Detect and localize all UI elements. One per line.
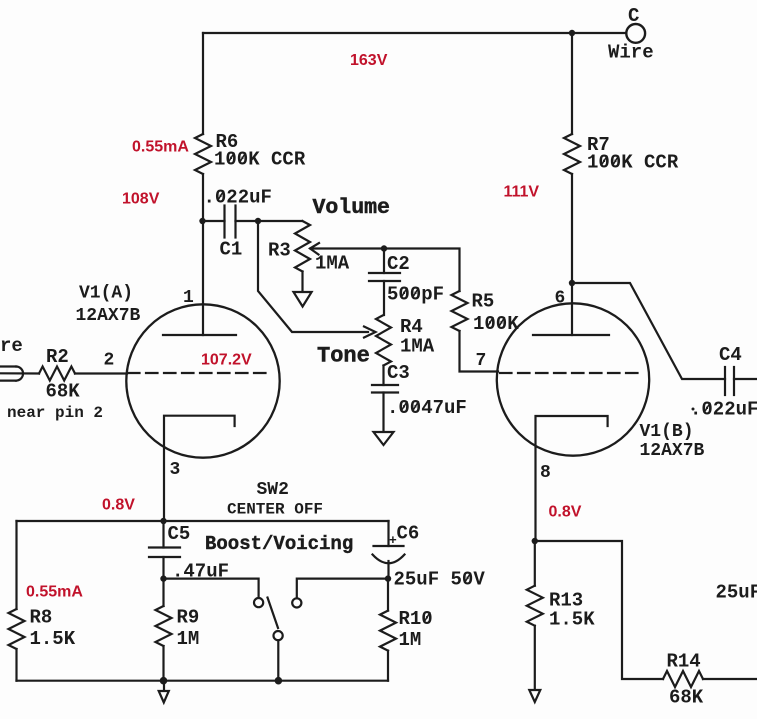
speck xyxy=(692,408,695,411)
svg-text:1: 1 xyxy=(183,288,194,308)
tube V1(B) grid dashed xyxy=(500,372,641,374)
wire R7 bottom lead xyxy=(571,174,573,283)
ground arrow bottom xyxy=(159,681,169,703)
svg-text:R2: R2 xyxy=(46,346,69,368)
svg-text:R8: R8 xyxy=(30,607,53,629)
svg-text:.022uF: .022uF xyxy=(690,399,757,421)
tube V1(B) plate lead pin 6 xyxy=(571,283,573,335)
tube V1(A) circle xyxy=(126,304,279,457)
svg-text:1MA: 1MA xyxy=(400,336,435,358)
resistor R13 xyxy=(527,541,595,690)
svg-text:R9: R9 xyxy=(177,607,200,629)
resistor R5 xyxy=(452,291,520,336)
capacitor C6 xyxy=(373,521,486,591)
svg-text:R10: R10 xyxy=(399,608,433,630)
wire R5 to pin 7 xyxy=(460,331,499,372)
switch SW2 xyxy=(164,579,389,681)
resistor R8 xyxy=(9,521,76,681)
svg-text:Boost/Voicing: Boost/Voicing xyxy=(205,533,353,555)
slashed zeros xyxy=(218,153,710,622)
svg-text:+: + xyxy=(389,533,397,548)
svg-text:7: 7 xyxy=(476,351,487,371)
wire R2 to pin 2 xyxy=(75,372,127,374)
ground below C3 xyxy=(374,432,394,445)
svg-text:C1: C1 xyxy=(220,239,243,261)
wire R7 top lead xyxy=(571,33,573,134)
wire R3 wiper to node xyxy=(311,247,385,249)
svg-text:12AX7B: 12AX7B xyxy=(640,441,705,461)
svg-text:.022uF: .022uF xyxy=(204,187,272,209)
svg-text:500pF: 500pF xyxy=(387,284,444,306)
svg-text:8: 8 xyxy=(540,463,551,483)
svg-text:1M: 1M xyxy=(399,629,422,651)
resistor R14 xyxy=(663,651,757,709)
junction dot bottom switch xyxy=(275,677,283,685)
capacitor C1 xyxy=(203,187,272,261)
svg-text:1.5K: 1.5K xyxy=(549,609,595,631)
tube V1(A) grid dashed xyxy=(128,372,272,374)
capacitor C5 xyxy=(149,521,229,583)
svg-text:re: re xyxy=(0,335,23,357)
wire bottom bus xyxy=(17,680,389,682)
node C terminal xyxy=(626,24,645,43)
svg-text:108V: 108V xyxy=(122,191,160,208)
wire C1 to tone wiper xyxy=(258,221,368,332)
svg-text:100K CCR: 100K CCR xyxy=(587,152,679,174)
wire cathode bus xyxy=(17,520,389,522)
junction dot node 6 xyxy=(569,280,575,286)
ground arrow below R13 xyxy=(529,690,540,702)
svg-text:68K: 68K xyxy=(46,381,81,403)
svg-text:C5: C5 xyxy=(168,523,191,545)
junction dot below C6 xyxy=(385,575,391,581)
svg-text:1M: 1M xyxy=(177,628,200,650)
svg-text:3: 3 xyxy=(170,460,181,480)
ground below R3 xyxy=(294,292,312,307)
svg-text:6: 6 xyxy=(555,289,566,309)
wire R6 top lead xyxy=(202,33,204,134)
capacitor C2 xyxy=(369,249,444,306)
junction dot below C5 xyxy=(160,575,166,581)
wire cathode B to R14 xyxy=(535,541,663,679)
resistor R10 xyxy=(380,579,433,681)
junction dot top xyxy=(569,30,575,36)
svg-text:C4: C4 xyxy=(719,344,742,366)
tube V1(A) plate lead pin 1 xyxy=(202,221,204,335)
svg-text:12AX7B: 12AX7B xyxy=(76,306,141,326)
svg-text:100K CCR: 100K CCR xyxy=(214,149,306,171)
svg-text:Volume: Volume xyxy=(313,196,390,220)
svg-text:25uF: 25uF xyxy=(716,582,757,604)
wire R3 bottom lead xyxy=(301,272,303,293)
svg-text:C3: C3 xyxy=(387,362,410,384)
svg-text:V1(A): V1(A) xyxy=(79,284,133,304)
tube V1(B) cathode xyxy=(536,416,608,541)
svg-text:C6: C6 xyxy=(397,523,420,545)
junction dot cathode A xyxy=(160,518,166,524)
tube V1(B) plate xyxy=(533,334,609,336)
svg-text:.0047uF: .0047uF xyxy=(387,397,467,419)
svg-text:163V: 163V xyxy=(350,52,388,69)
svg-text:Wire: Wire xyxy=(608,42,654,64)
resistor R9 xyxy=(156,579,200,681)
junction dot C1 right xyxy=(255,218,261,224)
svg-text:1.5K: 1.5K xyxy=(30,628,76,650)
capacitor C3 xyxy=(372,362,467,432)
svg-text:R3: R3 xyxy=(268,240,291,262)
resistor R2 xyxy=(39,346,80,403)
junction dot cathode B xyxy=(532,538,538,544)
wire plate output to C4 xyxy=(572,283,725,379)
svg-text:SW2: SW2 xyxy=(257,480,289,500)
svg-text:1MA: 1MA xyxy=(315,253,350,275)
svg-text:107.2V: 107.2V xyxy=(201,352,252,369)
junction dot bottom R9 xyxy=(160,677,168,685)
svg-text:C2: C2 xyxy=(387,253,410,275)
input connector xyxy=(0,367,39,381)
potentiometer R3 xyxy=(268,221,350,275)
svg-text:V1(B): V1(B) xyxy=(640,422,694,442)
resistor R7 xyxy=(564,134,679,174)
svg-text:25uF 50V: 25uF 50V xyxy=(394,569,486,591)
wire R6 bottom lead xyxy=(202,174,204,221)
junction dot volume node xyxy=(381,245,387,251)
svg-text:0.8V: 0.8V xyxy=(549,504,582,521)
svg-text:R5: R5 xyxy=(472,291,495,313)
svg-text:0.55mA: 0.55mA xyxy=(26,584,83,601)
tube V1(A) plate xyxy=(163,334,236,336)
svg-text:near pin 2: near pin 2 xyxy=(7,404,103,422)
junction dot node 108V xyxy=(199,218,205,224)
svg-text:2: 2 xyxy=(104,351,115,371)
svg-text:CENTER OFF: CENTER OFF xyxy=(227,501,323,519)
svg-text:0.55mA: 0.55mA xyxy=(132,139,189,156)
svg-text:111V: 111V xyxy=(504,184,540,201)
svg-text:68K: 68K xyxy=(669,687,704,709)
wire top bus 163V xyxy=(203,32,626,34)
svg-text:Tone: Tone xyxy=(317,344,370,369)
potentiometer R4 Tone xyxy=(376,281,435,366)
wire arrowhead into R4 xyxy=(364,327,376,338)
tube V1(A) cathode xyxy=(164,416,235,521)
svg-text:C: C xyxy=(628,5,639,27)
resistor R6 xyxy=(195,131,306,174)
wire R3 top lead xyxy=(258,220,302,222)
tube V1(B) circle xyxy=(497,303,649,455)
wire R5 top lead xyxy=(384,249,460,292)
svg-text:R14: R14 xyxy=(667,651,701,673)
svg-text:0.8V: 0.8V xyxy=(102,497,135,514)
capacitor C4 xyxy=(690,344,757,421)
